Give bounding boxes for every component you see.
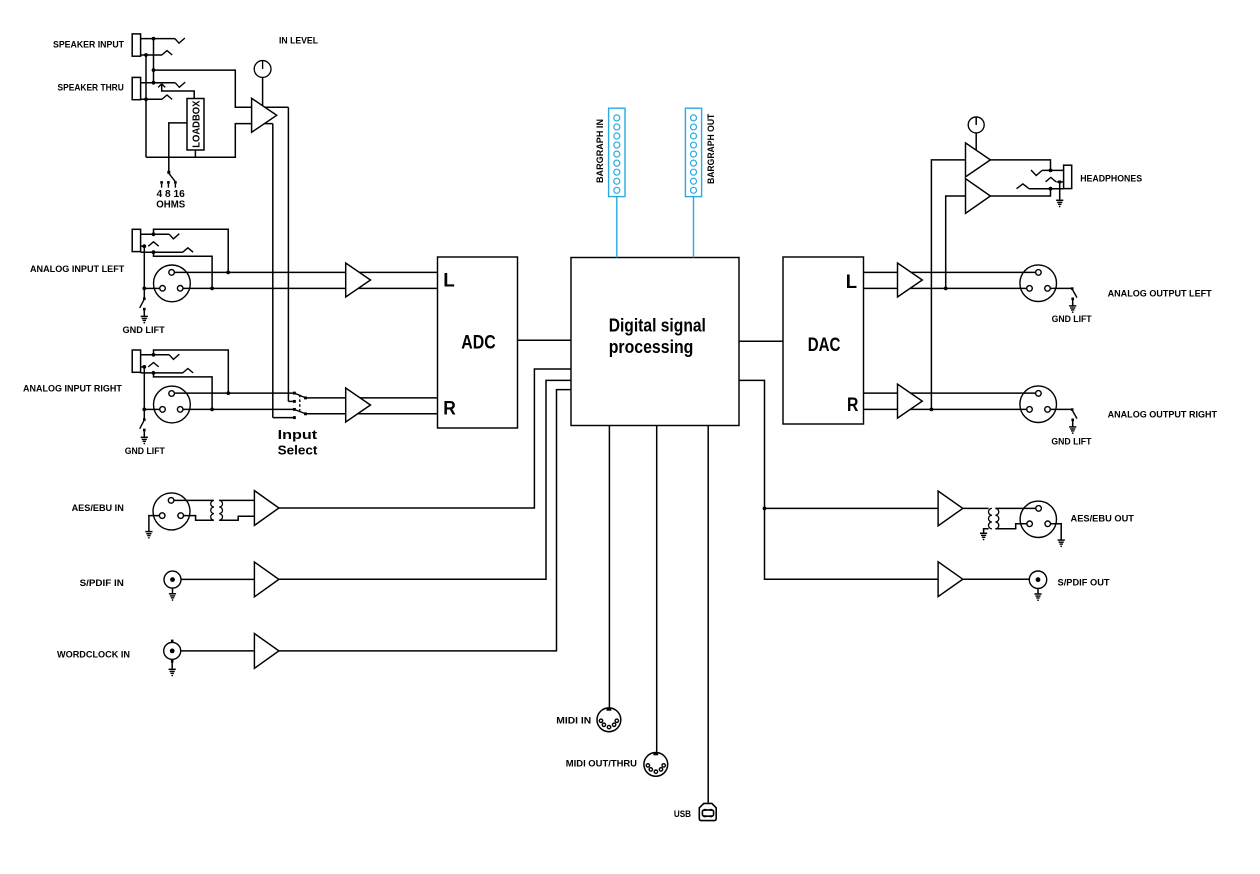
connector XLR female ANALOG INPUT RIGHT [154,386,191,423]
wire: headphone amp2 output to jack sleeve [990,189,1050,196]
wire: analog input left shield vertical [143,246,145,299]
jack J2 SPEAKER THRU [132,77,140,99]
jack J1 SPEAKER INPUT [132,34,140,56]
jack J3 ANALOG INPUT LEFT [132,229,140,251]
svg-text:GND LIFT: GND LIFT [1051,436,1091,447]
svg-text:WORDCLOCK IN: WORDCLOCK IN [57,649,130,660]
svg-text:DAC: DAC [808,335,841,356]
wire: XLR aes pin2 to transformer [174,499,213,501]
svg-text:L: L [846,272,858,293]
svg-text:S/PDIF OUT: S/PDIF OUT [1058,577,1110,588]
wire: bottom ground rail to amp lower input [146,124,273,158]
connector RCA S/PDIF IN [164,571,181,588]
wire: AES/EBU out branch [765,507,939,509]
switch: gnd lift analog input right [143,418,146,421]
svg-text:ANALOG INPUT RIGHT: ANALOG INPUT RIGHT [23,384,122,395]
svg-text:SPEAKER THRU: SPEAKER THRU [58,82,124,93]
wire: AES/EBU in to DSP [279,369,571,508]
switch: gnd lift analog input left [143,297,146,300]
wire: DSP to DAC [739,340,783,342]
svg-text:ANALOG OUTPUT LEFT: ANALOG OUTPUT LEFT [1108,288,1212,299]
svg-text:IN LEVEL: IN LEVEL [279,35,318,46]
wire: aes out amp to transformer [963,507,989,509]
wire: XLR aes pin1 to ground [149,516,160,532]
wire: DAC L pin3 line [864,287,1027,289]
connector RCA S/PDIF OUT [1029,571,1046,588]
wire: XLR L pin2 to ADC [174,271,437,273]
wire: XLR L pin3 to ADC [183,287,438,289]
junction dots analog input right [226,391,230,395]
svg-text:Input: Input [278,427,318,442]
wire: bnc to wordclock amp [181,650,255,652]
potentiometer headphones level [968,117,984,133]
svg-text:GND LIFT: GND LIFT [125,445,165,456]
op-amp U8 AES/EBU in receiver [254,491,279,526]
connector XLR male ANALOG OUTPUT RIGHT [1020,386,1057,423]
wire: analog input left ring path [154,252,213,288]
wire: XLR aes out pin3 to ground [1051,524,1062,540]
op-amp U1 speaker input amp [252,98,277,132]
op-amp U10 wordclock receiver [254,634,279,669]
ground: wordclock in [171,662,173,669]
wire: XLR R pin2 to input select [174,392,294,394]
svg-text:GND LIFT: GND LIFT [123,324,165,335]
wire: DSP to USB [707,426,709,803]
svg-text:L: L [443,270,455,291]
svg-text:Select: Select [278,442,318,457]
wire: XLR R pin3 to input select [183,408,294,410]
wire: DAC R lower to headphone amp 1 [931,160,965,410]
ground: aes/ebu out shield [1058,539,1065,541]
ground: aes/ebu in shield [145,531,152,533]
wire: speaker amp outputs down to input select [287,107,289,401]
wire: DAC L lower to headphone amp 2 [946,196,966,288]
op-amp U7 analog output right amp [898,384,923,418]
connector BNC WORDCLOCK IN [164,642,181,659]
wire: analog input left jack tip to XLR hot [154,229,229,272]
wire: tip bus to amp top input [154,70,289,107]
potentiometer IN LEVEL [254,61,271,78]
wire: DSP to MIDI IN [608,426,610,709]
ground: s/pdif out [1037,589,1039,594]
svg-text:LOADBOX: LOADBOX [192,100,203,148]
op-amp U2 analog input left amp [346,263,371,297]
wire: S/PDIF in to DSP [279,380,571,579]
wire: aes out primary to ground [984,529,989,533]
wire: wordclock in to DSP [279,390,571,651]
op-amp U6 analog output left amp [898,263,923,297]
svg-text:USB: USB [674,809,691,820]
svg-text:ANALOG INPUT LEFT: ANALOG INPUT LEFT [30,264,124,275]
wire: ADC to DSP [518,339,572,341]
op-amp U11 AES/EBU out driver [938,491,963,526]
wire: XLR out R pin3 to gnd lift [1050,408,1072,410]
wire: transformer to XLR out pin1 [995,524,1026,529]
wire: XLR out L pin3 to gnd lift [1050,287,1072,289]
svg-text:processing: processing [609,336,694,357]
indicator BARGRAPH IN [609,108,625,196]
ground: aes out primary [980,532,987,534]
switch: gnd lift analog output left [1071,287,1074,290]
connector USB [699,803,716,820]
switch: gnd lift analog output right [1071,408,1074,411]
ground: headphone jack ring [1059,183,1061,200]
wire: spdif out amp to rca [963,578,1030,580]
wire: headphone amp1 output to jack tip [990,160,1050,171]
svg-text:BARGRAPH IN: BARGRAPH IN [595,119,606,183]
jack J5 HEADPHONES [1064,165,1072,188]
wire: XLR R pin1 to gnd lift [144,408,159,410]
transformer T2 AES/EBU out [989,508,992,528]
svg-text:ANALOG OUTPUT RIGHT: ANALOG OUTPUT RIGHT [1108,410,1218,421]
indicator BARGRAPH OUT [685,108,701,196]
wire: analog input right shield vertical [143,367,145,420]
block ADC [438,257,518,428]
connector XLR female AES/EBU IN [153,493,190,530]
wire: analog input right ring path [154,373,213,410]
wire: analog input right jack tip to XLR hot [154,350,229,393]
wire: loadbox bottom to ground rail [194,150,196,157]
svg-text:Digital signal: Digital signal [609,314,706,335]
wire: XLR L pin1 to gnd lift [144,287,159,289]
wire: thru normalling arrow to loadbox [162,84,195,99]
svg-text:ADC: ADC [461,332,496,353]
wire: speaker sleeve bus vertical [145,55,147,157]
wire: transformer to XLR out pin2 [995,507,1035,509]
ground: s/pdif in [172,588,174,593]
connector DIN MIDI IN [597,708,621,732]
svg-text:S/PDIF IN: S/PDIF IN [80,578,124,589]
loadbox LOADBOX [187,99,204,151]
wire: DSP to MIDI OUT/THRU [656,426,658,753]
connector XLR female ANALOG INPUT LEFT [154,265,191,302]
wire: XLR aes pin3 to transformer [184,516,214,521]
svg-text:MIDI IN: MIDI IN [556,716,591,727]
connector XLR male AES/EBU OUT [1020,501,1056,537]
op-amp U12 S/PDIF out driver [938,562,963,597]
svg-text:AES/EBU OUT: AES/EBU OUT [1071,514,1135,525]
jack J4 ANALOG INPUT RIGHT [132,350,140,372]
svg-text:GND LIFT: GND LIFT [1052,313,1092,324]
op-amp U4 headphone amp left [966,143,991,177]
wire: DAC R pin2 line [864,392,1037,394]
svg-text:AES/EBU IN: AES/EBU IN [72,503,124,514]
wire: DSP digital out feed [739,380,938,579]
op-amp U9 S/PDIF in receiver [254,562,279,597]
svg-text:R: R [443,399,456,420]
transformer T1 AES/EBU in [211,500,214,520]
connector XLR male ANALOG OUTPUT LEFT [1020,265,1057,302]
wire: DAC R pin3 line [864,408,1027,410]
junction dots on speaker buses [152,37,156,41]
svg-text:OHMS: OHMS [156,199,185,210]
op-amp U5 headphone amp right [966,179,991,214]
switch: input select DPDT [288,400,294,402]
connector DIN MIDI OUT/THRU [644,753,668,777]
svg-text:HEADPHONES: HEADPHONES [1080,173,1142,184]
wire: rca to spdif amp [181,578,254,580]
switch: speaker impedance selector 4/8/16 ohms [167,171,170,174]
svg-text:R: R [847,395,859,416]
svg-text:SPEAKER INPUT: SPEAKER INPUT [53,40,124,51]
svg-text:MIDI OUT/THRU: MIDI OUT/THRU [566,759,637,770]
wire: loadbox left to ohms selector [169,123,187,171]
wire: input select to ADC R [306,397,438,399]
block Digital signal processing [571,258,739,426]
wire: DAC L pin2 line [864,271,1036,273]
wire: transformer to aes amp [219,499,254,501]
junction dots analog input left [226,271,230,275]
block DAC [783,257,864,424]
wire: speaker input tip bus vertical [153,39,155,83]
op-amp U3 analog input right amp [346,388,371,422]
svg-text:BARGRAPH OUT: BARGRAPH OUT [706,114,717,184]
